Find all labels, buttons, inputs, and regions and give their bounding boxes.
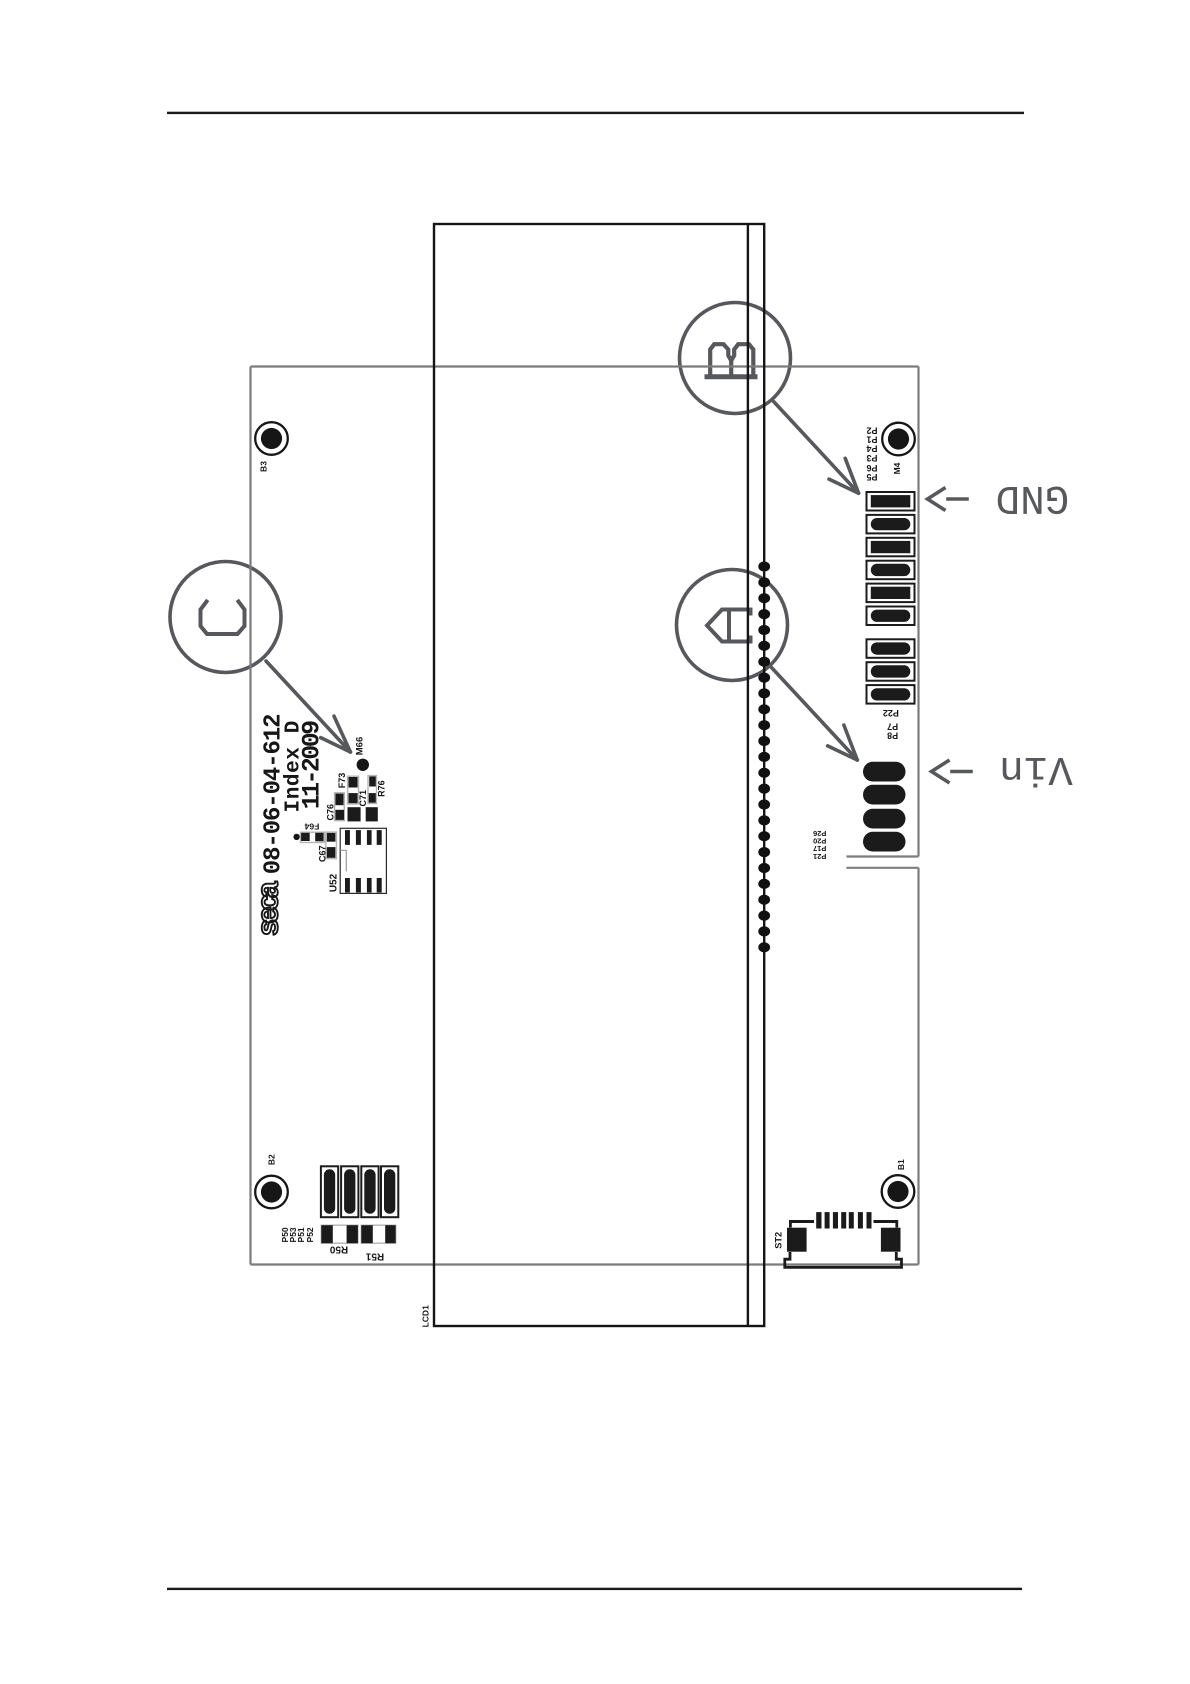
svg-text:C71: C71 xyxy=(358,790,368,807)
LCD1 outline rectangle xyxy=(434,224,764,1326)
svg-text:U52: U52 xyxy=(329,873,340,892)
pad P3 box xyxy=(867,538,915,557)
pin labels P26 P20 P17 P21 (rotated 180) xyxy=(813,829,826,861)
svg-text:Vin: Vin xyxy=(999,745,1073,791)
letter C (rotated) xyxy=(201,602,245,635)
svg-text:LCD1: LCD1 xyxy=(420,1305,430,1327)
pad P7 xyxy=(871,665,911,677)
pad P1 box xyxy=(867,584,915,603)
mounting hole B2 xyxy=(255,1176,288,1209)
pin labels P50 P53 P51 P52 (rotated -90) xyxy=(280,1227,315,1242)
pin labels P2 P1 P4 P3 P6 P5 (rotated 180) xyxy=(866,426,877,482)
board outline bottom edge xyxy=(251,1263,919,1265)
pad R50.1 xyxy=(321,1225,333,1243)
svg-text:R51: R51 xyxy=(365,1251,384,1262)
svg-text:P6: P6 xyxy=(866,463,877,473)
pad P52 xyxy=(384,1169,395,1214)
pad U52.5 xyxy=(377,878,382,893)
component F73 body xyxy=(348,776,359,804)
svg-text:GND: GND xyxy=(996,474,1070,520)
arrow C xyxy=(266,661,350,752)
pad C71.2 xyxy=(366,807,378,821)
slot upper edge xyxy=(846,855,918,857)
svg-text:P7: P7 xyxy=(887,722,898,732)
board outline top edge xyxy=(251,365,919,367)
svg-text:ST2: ST2 xyxy=(774,1232,784,1249)
svg-text:P21: P21 xyxy=(813,852,826,861)
slot lower edge xyxy=(846,867,918,869)
pad P6 box xyxy=(867,515,915,534)
pad C76.2 xyxy=(335,810,344,820)
component C67 body xyxy=(326,832,337,859)
pad P6 xyxy=(871,518,911,530)
component R76 body xyxy=(368,776,377,804)
header rule xyxy=(167,112,1024,114)
pad F73.2 xyxy=(349,793,358,803)
pad U52.2 xyxy=(356,830,361,845)
pad P8 xyxy=(871,688,911,700)
pad P7 box xyxy=(867,662,915,681)
pad R51.2 xyxy=(385,1225,396,1243)
pad P4 xyxy=(871,564,911,576)
pad R51.1 xyxy=(361,1225,373,1243)
pad P21 xyxy=(863,762,906,782)
pad C76.1 xyxy=(335,794,343,806)
LCD1 inner edge line xyxy=(747,224,749,1326)
ST2 anchor pad left xyxy=(787,1228,807,1252)
pad C71.1 xyxy=(348,807,361,821)
board outline left edge xyxy=(249,367,251,1265)
pin labels P22 P7 P8 (rotated 180) xyxy=(883,708,899,740)
svg-text:P3: P3 xyxy=(866,453,877,463)
svg-text:P17: P17 xyxy=(813,844,826,853)
pad F64.2 xyxy=(315,833,323,842)
pad P52 box xyxy=(381,1166,398,1217)
mounting hole B1 xyxy=(882,1175,915,1208)
pad P17 xyxy=(863,785,906,805)
svg-text:F73: F73 xyxy=(337,773,347,789)
IC U52 body xyxy=(340,828,386,893)
svg-text:C76: C76 xyxy=(326,804,336,821)
callout circle A xyxy=(677,570,788,681)
board outline right edge lower xyxy=(917,868,919,1265)
pad U52.8 xyxy=(345,878,350,893)
mounting hole M4 xyxy=(882,423,915,456)
pad C67.2 xyxy=(327,847,336,858)
pad P51 xyxy=(364,1169,375,1214)
ST2 pin 5 xyxy=(849,1212,854,1228)
component C76 body xyxy=(335,793,345,821)
callout circle B xyxy=(680,303,791,414)
arrow A xyxy=(772,668,858,760)
pad P26 xyxy=(863,832,906,852)
component F64 body xyxy=(301,832,325,842)
pad R76.1 xyxy=(369,776,376,786)
ST2 right rail xyxy=(874,1220,899,1228)
pad U52.6 xyxy=(367,878,372,893)
pad F73.1 xyxy=(349,777,358,788)
board outline right edge upper xyxy=(917,367,919,857)
pad P20 xyxy=(863,809,906,829)
svg-text:B2: B2 xyxy=(267,1154,277,1165)
ST2 pin 3 xyxy=(833,1212,838,1228)
resistor R50 body xyxy=(321,1225,358,1243)
F64 polarity dot xyxy=(293,834,299,840)
resistor R51 body xyxy=(361,1225,395,1243)
pad C67.1 xyxy=(327,833,336,842)
pad P22 xyxy=(871,642,911,654)
svg-text:B1: B1 xyxy=(896,1159,906,1170)
pad P50 box xyxy=(321,1166,338,1217)
pad P53 xyxy=(344,1169,355,1214)
ST2 left rail xyxy=(789,1220,814,1228)
ST2 anchor pad right xyxy=(881,1228,901,1252)
svg-text:R50: R50 xyxy=(329,1244,348,1255)
ST2 pin 6 xyxy=(858,1212,863,1228)
letter A (rotated) xyxy=(707,610,751,642)
ST2 pin 1 xyxy=(816,1212,821,1228)
pad U52.1 xyxy=(345,830,350,845)
pad P1 xyxy=(871,587,911,599)
pad F64.1 xyxy=(301,833,310,841)
pad P5 box xyxy=(867,492,915,511)
pad R50.2 xyxy=(347,1225,358,1243)
ST2 pin 4 xyxy=(841,1212,846,1228)
footer rule xyxy=(167,1588,1022,1590)
pad U52.3 xyxy=(367,830,372,845)
svg-text:P4: P4 xyxy=(866,444,877,454)
ST2 body outline xyxy=(785,1252,902,1267)
svg-text:M66: M66 xyxy=(355,737,366,755)
pad P50 xyxy=(324,1169,335,1214)
pad R76.2 xyxy=(369,793,376,803)
svg-text:C67: C67 xyxy=(317,845,327,862)
ST2 pin 2 xyxy=(825,1212,830,1228)
via dots column xyxy=(758,561,770,952)
svg-text:11-2009: 11-2009 xyxy=(298,721,327,809)
pad P2 xyxy=(871,610,911,622)
GND pointer arrow xyxy=(928,489,968,510)
fiducial M66 xyxy=(357,759,369,771)
letter B (rotated) xyxy=(705,344,758,377)
Vin pointer arrow xyxy=(932,761,972,782)
pad P22 box xyxy=(867,639,915,658)
ST2 pin 7 xyxy=(867,1212,872,1228)
U52 pin1 mark xyxy=(340,850,346,871)
svg-text:P2: P2 xyxy=(866,426,877,436)
pad P5 xyxy=(871,495,911,507)
arrow B xyxy=(774,402,859,494)
svg-text:P8: P8 xyxy=(887,731,898,741)
svg-text:B3: B3 xyxy=(258,461,268,472)
svg-text:P5: P5 xyxy=(866,472,877,482)
svg-text:P22: P22 xyxy=(883,708,899,718)
pad P8 box xyxy=(867,685,915,704)
svg-text:R76: R76 xyxy=(376,780,386,797)
pad U52.4 xyxy=(377,830,382,845)
pad P53 box xyxy=(341,1166,358,1217)
svg-text:seca: seca xyxy=(253,881,287,937)
mounting hole B3 xyxy=(255,422,288,455)
pad P51 box xyxy=(361,1166,378,1217)
pad U52.7 xyxy=(356,878,361,893)
callout circle C xyxy=(170,562,281,673)
svg-text:M4: M4 xyxy=(892,462,902,474)
svg-text:F64: F64 xyxy=(304,822,319,832)
svg-text:P1: P1 xyxy=(866,435,877,445)
pad P2 box xyxy=(867,607,915,626)
svg-text:P52: P52 xyxy=(305,1227,315,1242)
pad P3 xyxy=(871,541,911,553)
pad P4 box xyxy=(867,561,915,580)
